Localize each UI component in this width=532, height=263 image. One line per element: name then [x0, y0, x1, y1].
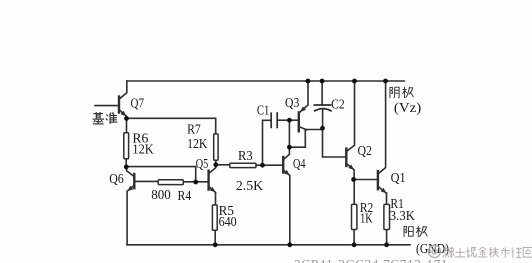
label 阳极 (anode)	[404, 226, 413, 237]
junction bottom rail R5	[213, 242, 218, 247]
transistor Q6	[133, 174, 135, 188]
wire Q4 collector node hook to Q3 collector	[289, 129, 305, 147]
wire C1 right lead to Q3 base node	[277, 119, 289, 121]
junction bottom rail R2	[352, 242, 357, 247]
wire Q1 emitter to R1 top	[386, 193, 388, 204]
wire bottom rail (anode bus)	[127, 244, 410, 246]
junction R4-Q5 base node	[193, 180, 198, 185]
junction C2 bottom node	[320, 126, 325, 131]
wire Q5 collector node to R3	[216, 164, 230, 166]
wire Q2 emitter node to R2 top	[353, 180, 355, 205]
label 基准 (reference) for Q7 base	[93, 112, 105, 124]
svg-text:Q3: Q3	[285, 96, 299, 111]
wire Q6 collector node to R4 node	[126, 167, 195, 182]
svg-text:Q5: Q5	[196, 157, 209, 172]
svg-text:Q1: Q1	[391, 171, 406, 186]
resistor R5	[212, 205, 217, 230]
svg-text:R7: R7	[187, 122, 201, 137]
svg-text:R3: R3	[238, 149, 253, 164]
svg-text:Q4: Q4	[293, 157, 306, 172]
junction top rail Q3	[306, 79, 311, 84]
svg-text:800: 800	[151, 188, 171, 203]
wire R2 bottom to anode rail	[353, 230, 355, 245]
svg-text:12K: 12K	[187, 137, 207, 152]
wire C2 bottom to node	[322, 110, 324, 128]
transistor Q3	[298, 112, 300, 131]
svg-text:12K: 12K	[132, 143, 153, 158]
junction bottom rail R1	[384, 242, 389, 247]
transistor Q5	[207, 171, 209, 190]
wire Q4 emitter to anode rail	[289, 176, 291, 245]
junction Q4 collector node	[287, 145, 292, 150]
svg-text:C1: C1	[257, 103, 269, 118]
resistor R4	[158, 180, 183, 185]
resistor R2	[352, 204, 357, 229]
junction top rail Q2	[352, 79, 357, 84]
svg-text:Q6: Q6	[109, 172, 124, 187]
wire rail to C2 top	[321, 81, 323, 105]
wire C2 node down and right to Q2 base	[323, 128, 347, 157]
capacitor C2	[314, 104, 330, 106]
svg-text:C2: C2	[331, 97, 345, 112]
junction R3-C1 node	[260, 163, 265, 168]
wire R1 bottom to anode rail	[386, 230, 388, 245]
wire Q3 base node down to Q4 collector node	[288, 120, 290, 147]
junction Q2 emitter node	[351, 177, 356, 182]
transistor Q4	[282, 157, 284, 173]
wire Q7 emitter node to R6 top	[126, 119, 128, 133]
resistor R1	[384, 204, 390, 229]
svg-text:R4: R4	[178, 189, 192, 204]
watermark @稀土掘金技术社区	[429, 246, 441, 258]
wire Q3 collector to C2 bottom node	[305, 129, 322, 131]
transistor Q7	[118, 97, 120, 113]
wire R5 bottom to anode rail	[214, 230, 216, 245]
junction top rail Q1	[383, 79, 388, 84]
resistor R6	[124, 133, 129, 159]
transistor Q1	[377, 171, 379, 189]
svg-text:2.5K: 2.5K	[236, 179, 263, 194]
svg-text:3.3K: 3.3K	[390, 209, 415, 224]
wire R4 to Q5 base	[183, 181, 208, 183]
junction Q7 emitter node	[124, 116, 129, 121]
junction Q5 collector node	[213, 162, 218, 167]
wire Q7 emitter rail to R7 top	[127, 118, 216, 134]
svg-text:Q2: Q2	[358, 144, 373, 159]
svg-text:640: 640	[219, 215, 237, 230]
wire R7 bottom to Q5 collector node	[215, 160, 217, 164]
resistor R3	[230, 163, 256, 167]
resistor R7	[214, 134, 218, 160]
junction bottom rail Q4	[287, 242, 292, 247]
wire C1 left lead	[263, 120, 272, 165]
junction Q3 base node	[287, 118, 292, 123]
wire Q5 emitter to R5 top	[215, 193, 217, 205]
capacitor C1	[270, 113, 272, 127]
wire Q6 base to R4	[134, 180, 158, 182]
wire R3 to Q4 base	[256, 164, 283, 166]
label 阴极 (cathode)	[390, 87, 399, 98]
junction R6 bottom node	[124, 165, 129, 170]
wire R6 bottom to Q6 collector node	[125, 159, 127, 168]
svg-text:2CP41-2CC24 7C713-17J: 2CP41-2CC24 7C713-17J	[294, 257, 447, 263]
svg-text:1K: 1K	[360, 211, 373, 226]
wire top rail (cathode bus)	[127, 80, 405, 82]
svg-text:Q7: Q7	[131, 96, 145, 111]
junction top rail C2	[320, 79, 325, 84]
transistor Q2	[345, 149, 347, 167]
wire Q2 emitter node to Q1 base	[354, 179, 378, 181]
svg-text:(Vz): (Vz)	[394, 101, 422, 116]
